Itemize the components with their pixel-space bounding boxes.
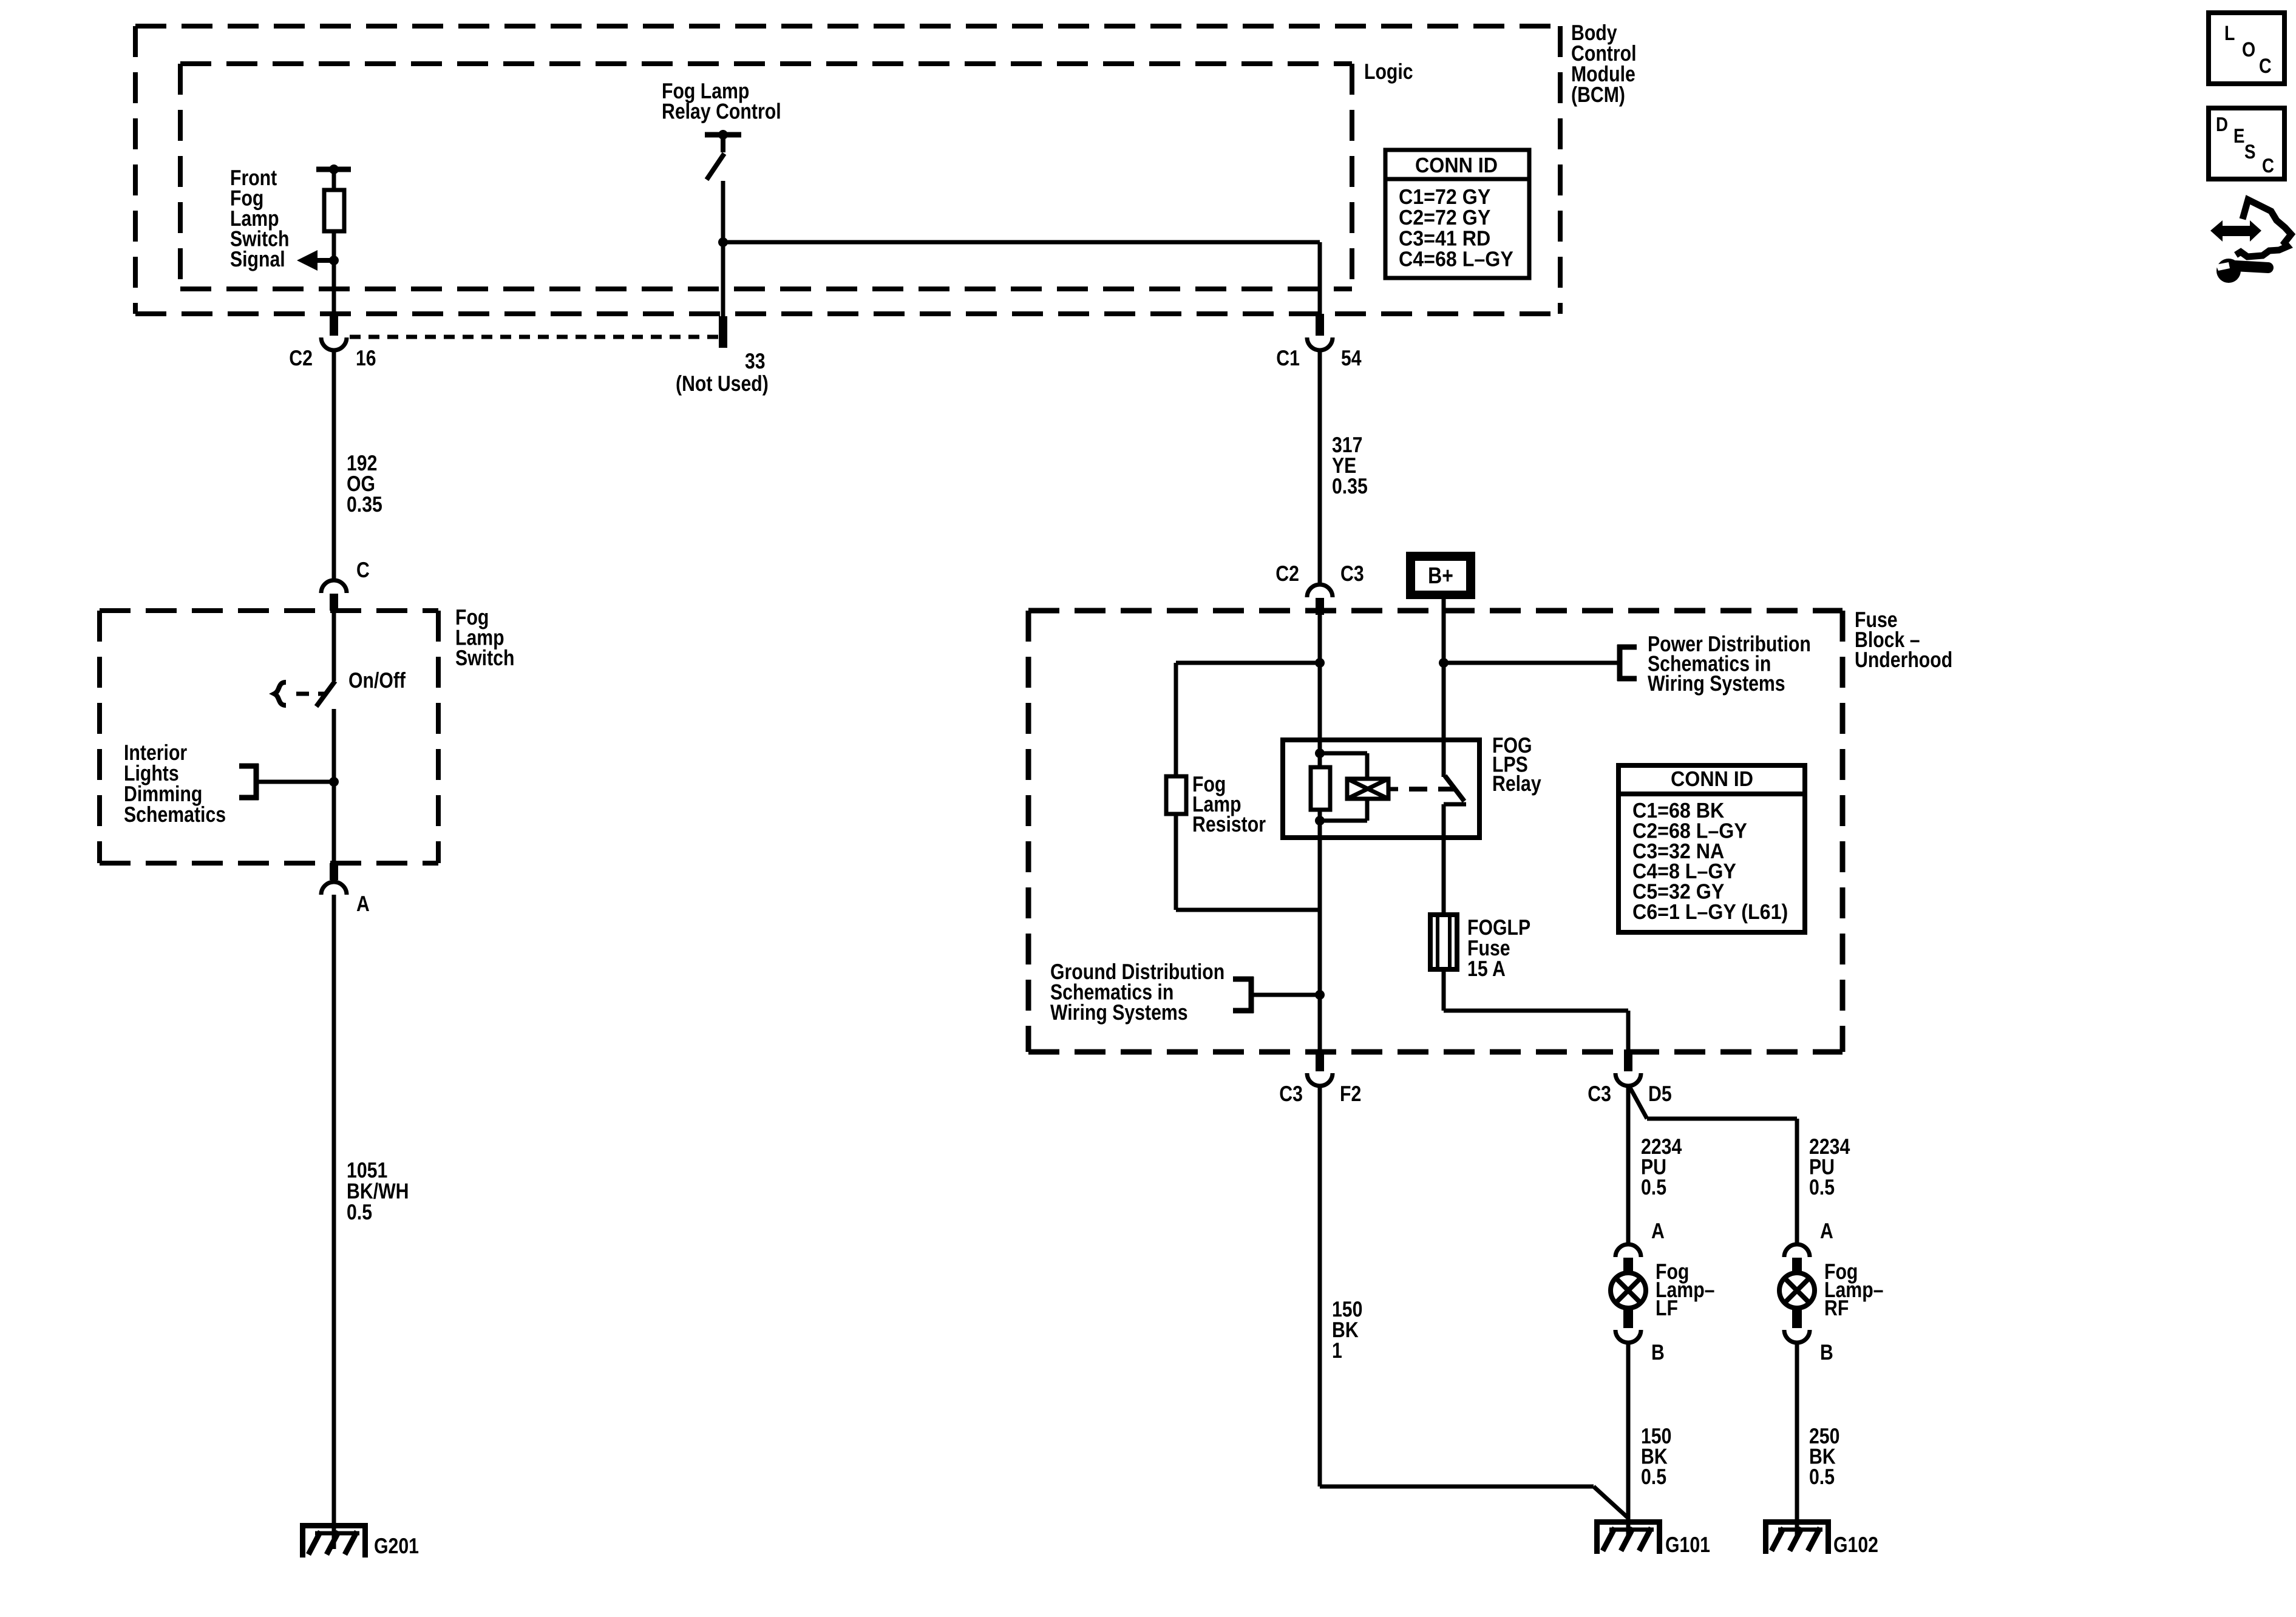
label: G102: [1833, 1532, 1878, 1557]
svg-text:C: C: [2259, 55, 2272, 78]
wire: circuit 1051 to ground G201: [332, 895, 336, 1549]
label: Fog Lamp- LF: [1656, 1259, 1715, 1320]
wire label: 2234 PU 0.5 (right): [1809, 1134, 1850, 1199]
node: relay coil bottom: [1315, 816, 1325, 825]
svg-text:33: 33: [745, 348, 766, 373]
wire: relay switch feed (from B+ junction): [1442, 663, 1446, 777]
signal arrow: Front Fog Lamp Switch Signal (points left): [297, 250, 336, 271]
switch actuator link (dashed): [296, 692, 325, 696]
svg-text:C: C: [2262, 154, 2274, 177]
switch: relay control driver contact (open blade): [707, 154, 724, 180]
relay coil bypass right upper: [1365, 753, 1370, 779]
conn id table (BCM): [1385, 150, 1529, 278]
wire: relay coil bottom to ground junctions: [1318, 810, 1322, 1051]
svg-text:Schematics: Schematics: [124, 802, 226, 827]
svg-text:Signal: Signal: [230, 246, 285, 271]
wire: D5 diagonal to right fog lamp branch: [1629, 1086, 1647, 1119]
label: C3 (at D5): [1588, 1081, 1611, 1106]
svg-text:0.5: 0.5: [1809, 1464, 1835, 1489]
label: (Not Used): [676, 371, 769, 396]
relay coil bypass loop top: [1320, 751, 1367, 756]
svg-text:16: 16: [356, 345, 376, 370]
connector C2/C3 (BCM harness to fuse block): [1307, 585, 1333, 615]
node: B+ junction to power distribution: [1439, 658, 1449, 668]
wire: resistor branch top (to Fog Lamp Resistor): [1176, 661, 1320, 665]
icon: DESC box: [2209, 108, 2284, 179]
resistor: Fog Lamp Resistor: [1166, 776, 1186, 814]
connector A (Fog Lamp RF): [1784, 1244, 1810, 1273]
wire label: 317 YE 0.35: [1332, 432, 1368, 498]
wire label: 192 OG 0.35: [347, 450, 382, 517]
svg-text:LF: LF: [1656, 1295, 1678, 1320]
label: 33: [745, 348, 766, 373]
relay coil (in main path): [1311, 767, 1330, 810]
node: relay coil top / resistor branch junction: [1315, 658, 1325, 668]
wire: relay control to C1 pin 54 (horizontal): [723, 240, 1320, 245]
wire: resistor to signal junction: [332, 231, 336, 260]
label: Fog Lamp Switch: [455, 605, 514, 670]
wire: relay control vertical to pin 33: [721, 181, 725, 316]
label: 16: [356, 345, 376, 370]
svg-text:B: B: [1820, 1340, 1833, 1364]
wire: tap to dimming bracket: [256, 780, 334, 784]
svg-text:Relay Control: Relay Control: [662, 99, 781, 124]
svg-text:(Not Used): (Not Used): [676, 371, 769, 396]
switch: On/Off contact blade (open): [316, 681, 335, 707]
label: Fog Lamp- RF: [1824, 1259, 1884, 1320]
connector A (fog lamp switch output): [321, 863, 347, 895]
svg-text:S: S: [2244, 140, 2256, 163]
connector B (Fog Lamp LF): [1615, 1308, 1641, 1343]
svg-text:Switch: Switch: [455, 645, 514, 670]
connector face line C2 (fine dotted): [350, 335, 719, 339]
wire: relay switch output to FOGLP fuse: [1442, 804, 1446, 915]
label: 54: [1341, 345, 1362, 370]
label: C2: [289, 345, 313, 370]
wire: stub below driver bar: [721, 137, 725, 152]
label: Interior Lights Dimming Schematics: [124, 740, 226, 827]
label: A (LF): [1651, 1218, 1665, 1243]
svg-text:D: D: [2216, 113, 2228, 135]
wire: 150 BK 1 horizontal run: [1320, 1485, 1594, 1489]
wire: B+ junction to power distribution bracket: [1444, 661, 1617, 665]
label: F2: [1340, 1081, 1361, 1106]
wire label: 1051 BK/WH 0.5: [347, 1158, 409, 1224]
wire: 150 BK 1 diagonal to G101: [1594, 1486, 1628, 1518]
wire: circuit 250 BK 0.5 to G102: [1795, 1343, 1799, 1536]
svg-text:C2: C2: [289, 345, 313, 370]
svg-text:(BCM): (BCM): [1571, 82, 1625, 107]
wire: down to connector C1 pin 54: [1318, 242, 1322, 315]
ground G102: [1763, 1519, 1831, 1554]
svg-text:Wiring Systems: Wiring Systems: [1648, 671, 1785, 696]
svg-text:F2: F2: [1340, 1081, 1361, 1106]
svg-text:RF: RF: [1824, 1295, 1849, 1320]
connector C3 pin D5 (fuse block output): [1615, 1049, 1641, 1086]
relay coil bypass loop bottom: [1320, 819, 1367, 823]
relay fixed contact tick: [1444, 802, 1466, 807]
wire: resistor branch return (horizontal): [1176, 908, 1320, 912]
wire: circuit 150 BK 1 down: [1318, 1086, 1322, 1486]
svg-text:0.5: 0.5: [1641, 1464, 1666, 1489]
component box: Fog Lamp Switch, dashed outline: [100, 611, 438, 863]
wire: circuit 150 BK 0.5 to G101: [1626, 1343, 1631, 1536]
wire: ground distribution junction to bracket: [1254, 993, 1320, 997]
label: C3 (at F2): [1279, 1081, 1303, 1106]
svg-text:1: 1: [1332, 1338, 1342, 1363]
svg-text:Logic: Logic: [1364, 59, 1413, 84]
svg-text:C1=72 GY: C1=72 GY: [1399, 185, 1490, 209]
label: B (RF): [1820, 1340, 1833, 1364]
label: Fog Lamp Resistor: [1192, 771, 1266, 836]
svg-text:C1: C1: [1276, 345, 1300, 370]
conn id table (fuse block): [1618, 765, 1805, 932]
connector C (fog lamp switch): [321, 580, 347, 611]
relay solenoid symbol (box with X): [1347, 779, 1388, 799]
svg-text:Underhood: Underhood: [1855, 647, 1952, 672]
svg-text:E: E: [2233, 124, 2245, 147]
off-page bracket: ground distribution: [1233, 977, 1254, 1013]
label: Ground Distribution Schematics in Wiring Systems: [1050, 959, 1224, 1025]
node: signal junction: [329, 256, 339, 265]
component box: Fuse Block - Underhood, dashed outline: [1028, 611, 1843, 1052]
node: ground distribution junction: [1315, 990, 1325, 1000]
label: Body Control Module (BCM): [1571, 20, 1637, 107]
svg-text:O: O: [2242, 38, 2255, 61]
wire: internal supply bar above pull-up resistor: [316, 164, 351, 174]
label: A (RF): [1820, 1218, 1833, 1243]
svg-text:C3: C3: [1340, 561, 1364, 586]
label: G101: [1665, 1532, 1710, 1557]
svg-text:CONN ID: CONN ID: [1671, 767, 1753, 791]
svg-text:B: B: [1651, 1340, 1665, 1364]
wire: fuse output horizontal to D5: [1444, 1009, 1628, 1013]
icon: LOC box: [2209, 13, 2284, 84]
svg-text:C3: C3: [1588, 1081, 1611, 1106]
svg-text:G101: G101: [1665, 1532, 1710, 1557]
power feed symbol: B+: [1406, 552, 1475, 599]
svg-text:Wiring Systems: Wiring Systems: [1050, 1000, 1188, 1025]
label: C2 (connector half): [1275, 561, 1299, 586]
relay box: FOG LPS Relay: [1283, 740, 1479, 838]
svg-text:0.5: 0.5: [1641, 1175, 1666, 1199]
label: On/Off: [348, 668, 406, 693]
ground G101: [1594, 1519, 1662, 1554]
wire: down to connector C3 D5: [1626, 1011, 1631, 1051]
wire: signal junction down to connector C2 pin 16: [332, 260, 336, 315]
wire: connector C to switch blade: [332, 611, 336, 681]
svg-text:C6=1 L–GY (L61): C6=1 L–GY (L61): [1632, 900, 1788, 924]
svg-text:0.5: 0.5: [1809, 1175, 1835, 1199]
svg-text:A: A: [1651, 1218, 1665, 1243]
svg-text:54: 54: [1341, 345, 1362, 370]
svg-text:0.5: 0.5: [347, 1199, 372, 1224]
label: D5: [1648, 1081, 1672, 1106]
label: Power Distribution Schematics in Wiring Systems: [1648, 631, 1811, 696]
wire: circuit 192 from C2-16 to switch connector C: [332, 350, 336, 579]
svg-text:CONN ID: CONN ID: [1415, 154, 1498, 177]
wire: circuit 317 from C1-54 to fuse block: [1318, 350, 1322, 583]
relay solenoid stub: [1388, 787, 1398, 792]
ground G201: [300, 1523, 368, 1558]
svg-text:0.35: 0.35: [1332, 473, 1368, 498]
svg-text:D5: D5: [1648, 1081, 1672, 1106]
icon: adjust/repair (hand with arrow and wrench): [2210, 200, 2291, 283]
label: FOGLP Fuse 15 A: [1467, 915, 1530, 981]
svg-text:Resistor: Resistor: [1192, 812, 1266, 836]
connector C2 pin 16 (in-line, BCM): [321, 314, 347, 350]
label: Logic: [1364, 59, 1413, 84]
off-page bracket: power distribution: [1617, 645, 1637, 681]
svg-text:C: C: [356, 557, 370, 582]
label: C1: [1276, 345, 1300, 370]
svg-text:15 A: 15 A: [1467, 956, 1506, 981]
svg-text:A: A: [356, 891, 370, 916]
svg-text:C2=72 GY: C2=72 GY: [1399, 206, 1490, 229]
svg-text:C4=68 L–GY: C4=68 L–GY: [1399, 248, 1513, 271]
connector C1 pin 54 (in-line, BCM): [1307, 314, 1333, 350]
wire: circuit 2234 PU to right fog lamp: [1795, 1119, 1799, 1244]
svg-text:G201: G201: [374, 1533, 419, 1558]
lamp: Fog Lamp - LF: [1611, 1273, 1646, 1308]
wire: circuit 2234 PU to left fog lamp: [1626, 1086, 1631, 1244]
wire: relay control driver bar: [705, 130, 741, 140]
wire: resistor branch lower vertical: [1174, 814, 1178, 910]
label: C3 (connector half): [1340, 561, 1364, 586]
label: G201: [374, 1533, 419, 1558]
wire: bar to resistor (pull-up): [332, 172, 336, 192]
resistor: front fog lamp switch signal pull-up: [324, 190, 344, 231]
fuse: FOGLP 15 A: [1430, 915, 1457, 969]
svg-text:B+: B+: [1428, 563, 1453, 589]
off-page bracket: interior lights dimming: [239, 764, 259, 800]
node: relay control output junction: [718, 237, 728, 247]
wire label: 250 BK 0.5: [1809, 1423, 1839, 1489]
label: Fog Lamp Relay Control: [662, 78, 781, 124]
svg-text:G102: G102: [1833, 1532, 1878, 1557]
svg-text:C3=41 RD: C3=41 RD: [1399, 226, 1490, 250]
wire label: 150 BK 0.5: [1641, 1423, 1671, 1489]
connector B (Fog Lamp RF): [1784, 1308, 1810, 1343]
svg-text:On/Off: On/Off: [348, 668, 406, 693]
connector A (Fog Lamp LF): [1615, 1244, 1641, 1273]
wire: fuse output down: [1442, 969, 1446, 1011]
svg-text:C3: C3: [1279, 1081, 1303, 1106]
wire label: 2234 PU 0.5 (left): [1641, 1134, 1682, 1199]
switch: relay contact blade (open): [1445, 776, 1464, 801]
wire: resistor branch left vertical down: [1174, 663, 1178, 778]
relay coil bypass right lower: [1365, 799, 1370, 821]
wire: switch output down through box: [332, 709, 336, 863]
node: relay coil top: [1315, 748, 1325, 758]
wire: B+ feed into fuse block: [1442, 599, 1446, 663]
logic box: BCM internal logic, dashed outline: [180, 64, 1352, 289]
svg-text:A: A: [1820, 1218, 1833, 1243]
module box: Body Control Module (BCM), dashed outline: [135, 26, 1560, 314]
svg-text:Relay: Relay: [1492, 771, 1541, 796]
connector C3 pin F2 (fuse block output): [1307, 1049, 1333, 1086]
label: B (LF): [1651, 1340, 1665, 1364]
lamp: Fog Lamp - RF: [1779, 1273, 1815, 1308]
svg-text:0.35: 0.35: [347, 492, 382, 517]
relay mechanical link (dashed): [1409, 787, 1462, 792]
label: FOG LPS Relay: [1492, 733, 1541, 796]
label: Front Fog Lamp Switch Signal: [230, 165, 289, 271]
switch actuator: detent hook: [274, 682, 286, 705]
node: interior lights dimming tap: [329, 777, 339, 787]
wire: right fog lamp branch horizontal: [1647, 1117, 1797, 1121]
wire label: 150 BK 1: [1332, 1297, 1362, 1363]
svg-text:L: L: [2224, 22, 2235, 45]
wire: fuse block feed from C2/C3 to relay coil: [1318, 615, 1322, 767]
svg-text:C2: C2: [1275, 561, 1299, 586]
label: Fuse Block - Underhood: [1855, 607, 1952, 672]
label: C: [356, 557, 370, 582]
pin 33 (Not Used): [719, 316, 727, 348]
label: A: [356, 891, 370, 916]
